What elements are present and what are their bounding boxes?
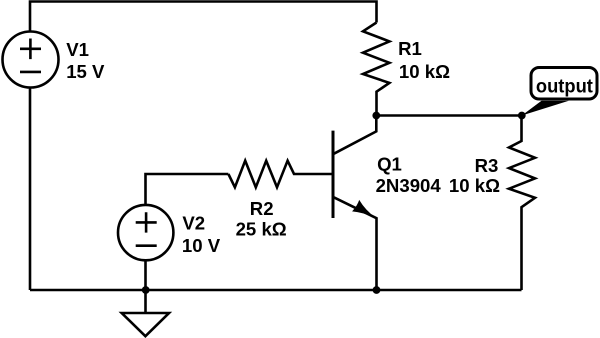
svg-text:15 V: 15 V [66, 61, 105, 82]
svg-text:output: output [536, 75, 593, 97]
svg-text:10 kΩ: 10 kΩ [399, 61, 450, 82]
svg-text:10 V: 10 V [182, 235, 221, 256]
svg-text:R2: R2 [250, 198, 274, 219]
svg-text:R1: R1 [398, 38, 422, 59]
svg-text:V1: V1 [66, 39, 89, 60]
svg-text:R3: R3 [475, 155, 499, 176]
svg-text:Q1: Q1 [377, 154, 402, 175]
svg-text:25 kΩ: 25 kΩ [236, 219, 287, 240]
svg-text:V2: V2 [182, 213, 205, 234]
svg-text:10 kΩ: 10 kΩ [449, 175, 500, 196]
svg-text:2N3904: 2N3904 [376, 175, 442, 196]
